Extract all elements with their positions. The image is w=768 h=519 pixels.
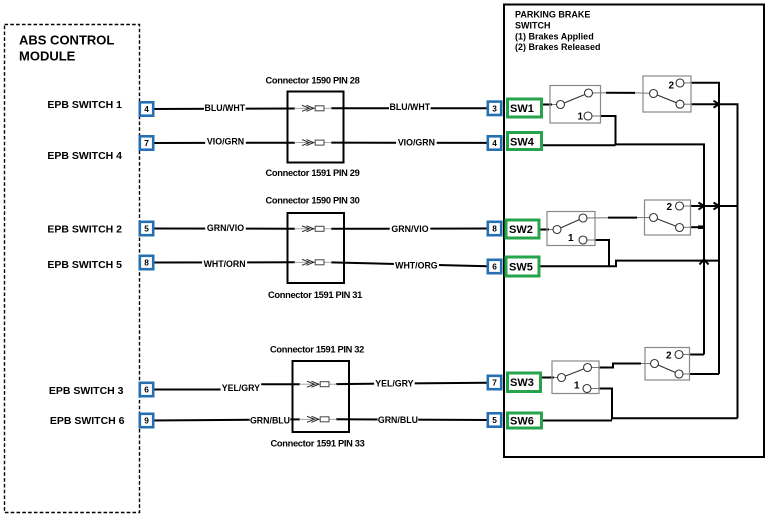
svg-text:SW4: SW4 — [510, 137, 535, 149]
svg-text:5: 5 — [144, 224, 149, 234]
svg-text:GRN/BLU: GRN/BLU — [250, 416, 290, 426]
svg-text:VIO/GRN: VIO/GRN — [207, 137, 244, 147]
svg-text:EPB SWITCH 3: EPB SWITCH 3 — [49, 385, 124, 397]
svg-text:Connector 1590 PIN 30: Connector 1590 PIN 30 — [265, 196, 359, 206]
svg-text:2: 2 — [668, 80, 674, 91]
svg-text:9: 9 — [144, 416, 149, 426]
svg-text:2: 2 — [666, 202, 672, 213]
svg-text:Connector 1591 PIN 29: Connector 1591 PIN 29 — [265, 168, 359, 178]
svg-text:(1) Brakes Applied: (1) Brakes Applied — [515, 31, 594, 41]
svg-text:GRN/BLU: GRN/BLU — [378, 415, 418, 425]
svg-text:EPB SWITCH 2: EPB SWITCH 2 — [47, 223, 122, 235]
svg-text:EPB SWITCH 5: EPB SWITCH 5 — [47, 259, 122, 271]
svg-text:8: 8 — [492, 224, 497, 234]
svg-text:6: 6 — [492, 262, 497, 272]
svg-text:BLU/WHT: BLU/WHT — [390, 102, 431, 112]
svg-text:ABS CONTROL: ABS CONTROL — [19, 33, 114, 48]
svg-text:8: 8 — [144, 258, 149, 268]
svg-text:2: 2 — [666, 351, 672, 362]
svg-text:3: 3 — [492, 103, 497, 113]
svg-text:MODULE: MODULE — [19, 49, 76, 64]
svg-text:1: 1 — [574, 381, 580, 392]
svg-text:Connector 1591 PIN 33: Connector 1591 PIN 33 — [270, 439, 364, 449]
svg-text:7: 7 — [492, 378, 497, 388]
svg-text:WHT/ORG: WHT/ORG — [395, 261, 438, 271]
svg-text:EPB SWITCH 4: EPB SWITCH 4 — [47, 150, 122, 162]
svg-text:YEL/GRY: YEL/GRY — [375, 379, 413, 389]
svg-text:SW5: SW5 — [509, 262, 533, 274]
svg-text:4: 4 — [492, 138, 497, 148]
svg-text:1: 1 — [577, 112, 583, 123]
svg-text:5: 5 — [492, 415, 497, 425]
svg-text:SW1: SW1 — [510, 103, 534, 115]
svg-text:EPB SWITCH 1: EPB SWITCH 1 — [47, 99, 122, 111]
svg-text:GRN/VIO: GRN/VIO — [391, 224, 428, 234]
svg-text:SW3: SW3 — [510, 377, 534, 389]
svg-text:GRN/VIO: GRN/VIO — [207, 223, 244, 233]
svg-text:BLU/WHT: BLU/WHT — [205, 103, 246, 113]
svg-text:Connector 1591 PIN 32: Connector 1591 PIN 32 — [270, 345, 364, 355]
svg-text:SW6: SW6 — [510, 416, 534, 428]
svg-text:EPB SWITCH 6: EPB SWITCH 6 — [50, 415, 125, 427]
svg-text:6: 6 — [144, 385, 149, 395]
svg-text:VIO/GRN: VIO/GRN — [398, 138, 435, 148]
svg-text:7: 7 — [144, 138, 149, 148]
svg-text:SWITCH: SWITCH — [515, 20, 551, 30]
svg-text:Connector 1591 PIN 31: Connector 1591 PIN 31 — [268, 290, 362, 300]
svg-text:YEL/GRY: YEL/GRY — [222, 383, 260, 393]
svg-text:4: 4 — [144, 104, 149, 114]
svg-text:WHT/ORN: WHT/ORN — [204, 259, 246, 269]
svg-text:1: 1 — [568, 233, 574, 244]
svg-text:Connector 1590 PIN 28: Connector 1590 PIN 28 — [265, 76, 359, 86]
svg-text:SW2: SW2 — [509, 224, 533, 236]
svg-text:PARKING BRAKE: PARKING BRAKE — [515, 10, 590, 20]
svg-text:(2) Brakes Released: (2) Brakes Released — [515, 42, 601, 52]
